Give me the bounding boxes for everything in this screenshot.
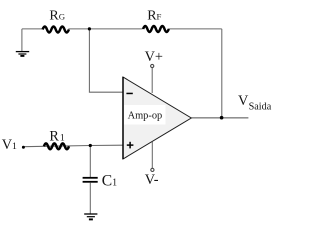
svg-text:Saida: Saida: [249, 101, 272, 112]
svg-text:V-: V-: [145, 172, 159, 188]
svg-text:RG: RG: [49, 9, 65, 24]
svg-text:RF: RF: [147, 9, 161, 24]
svg-text:Amp-op: Amp-op: [128, 110, 163, 121]
svg-text:V: V: [238, 93, 249, 109]
svg-text:V+: V+: [145, 49, 163, 65]
